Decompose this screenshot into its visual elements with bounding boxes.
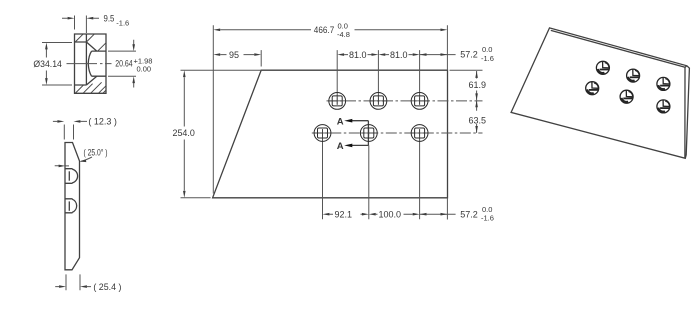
svg-text:57.2: 57.2	[460, 209, 478, 219]
svg-text:57.2: 57.2	[460, 50, 478, 60]
svg-text:81.0: 81.0	[390, 50, 408, 60]
svg-text:0.0: 0.0	[482, 205, 492, 214]
svg-text:92.1: 92.1	[335, 209, 353, 219]
svg-text:254.0: 254.0	[173, 128, 195, 138]
svg-text:A: A	[337, 116, 344, 127]
svg-text:-1.6: -1.6	[481, 54, 494, 63]
svg-text:( 25.4 ): ( 25.4 )	[93, 282, 121, 292]
svg-text:A: A	[337, 141, 344, 152]
svg-text:100.0: 100.0	[379, 209, 402, 219]
svg-text:-4.8: -4.8	[337, 30, 350, 39]
svg-text:95: 95	[229, 50, 239, 60]
svg-text:9.5: 9.5	[104, 14, 115, 24]
svg-text:20.64: 20.64	[115, 59, 133, 69]
svg-text:0.00: 0.00	[137, 65, 152, 74]
svg-text:( 12.3 ): ( 12.3 )	[88, 117, 117, 127]
svg-text:61.9: 61.9	[469, 80, 487, 90]
svg-text:-1.6: -1.6	[481, 214, 494, 223]
svg-text:63.5: 63.5	[469, 116, 487, 126]
svg-text:0.0: 0.0	[482, 45, 492, 54]
svg-text:466.7: 466.7	[314, 25, 335, 35]
svg-text:Ø34.14: Ø34.14	[33, 59, 62, 69]
svg-text:-1.6: -1.6	[116, 19, 129, 28]
svg-text:81.0: 81.0	[349, 50, 367, 60]
svg-text:( 25.0° ): ( 25.0° )	[84, 147, 108, 157]
